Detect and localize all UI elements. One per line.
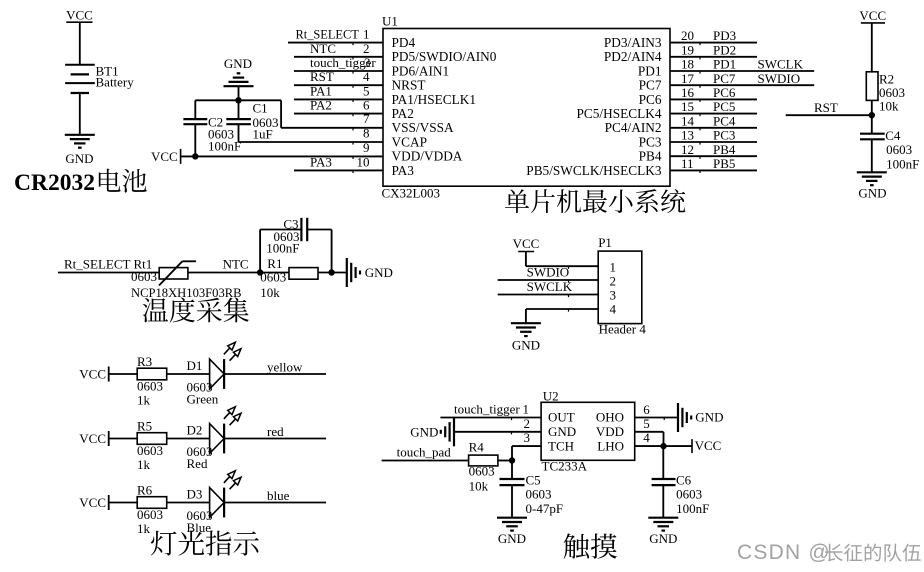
svg-text:5: 5: [363, 83, 370, 98]
svg-text:PD3/AIN3: PD3/AIN3: [604, 35, 662, 50]
wire VCC to R5: [109, 438, 138, 440]
svg-text:PA1: PA1: [310, 83, 332, 98]
svg-text:11: 11: [681, 156, 694, 171]
svg-text:GND: GND: [65, 151, 93, 166]
wire U1 pin 18 net PD1: [670, 70, 814, 72]
svg-text:C1: C1: [253, 101, 268, 116]
ground (C5): [497, 517, 527, 519]
caption MCU minimal system: [505, 189, 685, 213]
svg-text:blue: blue: [267, 488, 290, 503]
svg-text:6: 6: [363, 98, 370, 113]
ground (battery): [65, 134, 95, 136]
svg-text:VDD: VDD: [596, 424, 624, 439]
resistor R1: [289, 268, 318, 280]
svg-text:0-47pF: 0-47pF: [526, 501, 564, 516]
svg-text:SWDIO: SWDIO: [527, 265, 570, 280]
resistor R3: [137, 368, 167, 380]
wire U1 pin 3 net touch_tigger: [294, 70, 383, 72]
svg-text:R3: R3: [137, 354, 152, 369]
svg-text:PD3: PD3: [713, 28, 736, 43]
svg-text:PA2: PA2: [310, 98, 332, 113]
wire VCC to R6: [109, 502, 138, 504]
wire battery to GND: [79, 93, 81, 135]
svg-text:GND: GND: [365, 265, 393, 280]
svg-text:15: 15: [681, 99, 694, 114]
ground (C6): [648, 517, 678, 519]
svg-text:CX32L003: CX32L003: [382, 185, 441, 200]
svg-text:SWDIO: SWDIO: [758, 71, 801, 86]
svg-text:3: 3: [610, 288, 617, 303]
junction (C1 top): [235, 97, 241, 103]
capacitor C6: [662, 446, 664, 479]
svg-text:VCAP: VCAP: [392, 134, 427, 149]
svg-text:Battery: Battery: [96, 75, 135, 90]
svg-text:PC3: PC3: [713, 128, 735, 143]
wire header pin 1: [526, 265, 598, 267]
wire C1 to U1 VCAP pin8: [239, 141, 384, 143]
LED D1: [210, 359, 225, 389]
wire D3 to net blue: [224, 502, 326, 504]
svg-text:0603: 0603: [260, 269, 286, 284]
svg-text:Header 4: Header 4: [599, 321, 647, 336]
svg-text:RST: RST: [814, 100, 838, 115]
svg-text:GND: GND: [410, 424, 438, 439]
svg-text:PC7: PC7: [713, 71, 736, 86]
wire Rt_SELECT to thermistor: [58, 272, 159, 274]
svg-text:GND: GND: [498, 531, 526, 546]
svg-text:D1: D1: [187, 358, 203, 373]
svg-text:PC5: PC5: [713, 99, 735, 114]
svg-text:9: 9: [363, 140, 370, 155]
svg-text:RST: RST: [310, 69, 334, 84]
wire VCC to R3: [109, 373, 138, 375]
svg-text:1: 1: [610, 260, 617, 275]
wire U2 pin 4 LHO to VCC: [635, 445, 664, 447]
svg-text:PD1: PD1: [638, 63, 662, 78]
svg-text:NTC: NTC: [310, 41, 336, 56]
svg-text:10: 10: [357, 154, 370, 169]
wire R4 to junction: [498, 460, 512, 462]
wire U1 pin 4 net RST: [294, 84, 383, 86]
svg-text:0603: 0603: [137, 507, 163, 522]
wire header pin 2 SWDIO: [498, 279, 599, 281]
svg-text:1k: 1k: [137, 457, 151, 472]
battery BT1: [65, 64, 95, 66]
junction (RST node): [869, 112, 875, 118]
svg-text:D3: D3: [187, 487, 203, 502]
svg-text:C5: C5: [526, 472, 541, 487]
power VCC (U2): [691, 439, 693, 453]
svg-text:2: 2: [524, 416, 531, 431]
svg-text:3: 3: [364, 55, 371, 70]
wire U2 pin 5 VDD: [635, 431, 664, 433]
svg-text:GND: GND: [649, 531, 677, 546]
svg-text:OHO: OHO: [596, 410, 624, 425]
svg-text:19: 19: [681, 42, 694, 57]
svg-text:TC233A: TC233A: [542, 459, 588, 474]
svg-text:0603: 0603: [131, 269, 157, 284]
resistor R2: [866, 72, 878, 101]
wire U1 pin 14 net PC4: [670, 127, 757, 129]
caption touch: [564, 533, 617, 558]
wire U1 pin 12 net PB4: [670, 155, 757, 157]
svg-text:4: 4: [643, 430, 650, 445]
svg-text:PB5/SWCLK/HSECLK3: PB5/SWCLK/HSECLK3: [526, 163, 662, 178]
wire GND rail over C1 C2: [195, 99, 281, 101]
svg-text:GND: GND: [695, 409, 723, 424]
wire R2 to C4: [871, 100, 873, 133]
op-amp U1 box (MCU CX32L003): [383, 29, 670, 187]
svg-text:GND: GND: [548, 424, 576, 439]
svg-text:0603: 0603: [137, 379, 163, 394]
wire RST net: [786, 114, 872, 116]
svg-text:PA1/HSECLK1: PA1/HSECLK1: [392, 92, 476, 107]
resistor R6: [137, 497, 167, 509]
svg-text:Red: Red: [187, 456, 208, 471]
wire D1 to net yellow: [224, 373, 326, 375]
wire U1 pin 5 net PA1: [294, 98, 383, 100]
svg-text:100nF: 100nF: [208, 139, 241, 154]
svg-text:NRST: NRST: [392, 78, 426, 93]
svg-text:NTC: NTC: [223, 257, 249, 272]
wire touch_pad to R4: [382, 460, 469, 462]
svg-text:Green: Green: [187, 392, 219, 407]
wire GND rail down to U1 VSS pin7: [280, 100, 282, 128]
wire U1 pin 16 net PC6: [670, 98, 757, 100]
svg-text:PC6: PC6: [639, 92, 662, 107]
svg-text:VDD/VDDA: VDD/VDDA: [392, 149, 463, 164]
LED D2: [210, 424, 225, 454]
svg-text:0603: 0603: [469, 464, 495, 479]
svg-text:18: 18: [681, 57, 694, 72]
svg-text:PB5: PB5: [713, 156, 735, 171]
svg-text:PD2: PD2: [713, 42, 736, 57]
wire U1 pin 1 net Rt_SELECT: [288, 42, 383, 44]
svg-text:4: 4: [363, 69, 370, 84]
wire U2 pin 1 net touch_tigger: [440, 417, 541, 419]
svg-text:C6: C6: [676, 472, 692, 487]
svg-text:PD6/AIN1: PD6/AIN1: [392, 63, 450, 78]
svg-text:12: 12: [681, 142, 694, 157]
svg-text:SWCLK: SWCLK: [758, 57, 804, 72]
svg-text:PB4: PB4: [713, 142, 736, 157]
svg-text:4: 4: [610, 302, 617, 317]
wire U2 pin 2 to GND: [454, 431, 541, 433]
svg-text:VCC: VCC: [859, 8, 886, 23]
capacitor C5: [511, 461, 513, 480]
svg-text:PD2/AIN4: PD2/AIN4: [604, 49, 662, 64]
svg-text:OUT: OUT: [548, 410, 575, 425]
svg-text:10k: 10k: [469, 479, 489, 494]
svg-text:17: 17: [681, 71, 695, 86]
wire U1 pin 2 net NTC: [294, 56, 383, 58]
svg-text:VCC: VCC: [66, 7, 93, 22]
svg-text:VCC: VCC: [513, 236, 540, 251]
wire U1 pin 19 net PD2: [670, 56, 757, 58]
svg-text:20: 20: [681, 28, 694, 43]
svg-text:6: 6: [643, 402, 650, 417]
wire R3 to D1: [167, 373, 210, 375]
thermistor Rt1: [159, 268, 188, 279]
svg-text:16: 16: [681, 85, 695, 100]
svg-text:GND: GND: [512, 337, 540, 352]
capacitor C2: [194, 100, 196, 119]
svg-text:1k: 1k: [137, 521, 151, 536]
svg-text:PB4: PB4: [639, 149, 662, 164]
wire R5 to D2: [167, 438, 210, 440]
svg-text:NCP18XH103F03RB: NCP18XH103F03RB: [131, 286, 242, 300]
svg-text:0603: 0603: [886, 142, 912, 157]
svg-text:yellow: yellow: [267, 360, 303, 375]
svg-text:LHO: LHO: [597, 438, 624, 453]
svg-text:13: 13: [681, 128, 694, 143]
svg-text:0603: 0603: [526, 487, 552, 502]
ground (U2 pin 6): [677, 403, 679, 432]
svg-text:touch_pad: touch_pad: [397, 445, 452, 460]
svg-text:100nF: 100nF: [266, 241, 299, 256]
svg-text:CSDN @: CSDN @: [737, 541, 831, 564]
wire header pin 4 to GND: [526, 308, 598, 310]
svg-text:VCC: VCC: [79, 431, 106, 446]
wire U1 pin 10 net PA3: [294, 169, 383, 171]
svg-text:10k: 10k: [260, 285, 280, 300]
svg-text:PD4: PD4: [392, 35, 416, 50]
svg-text:VCC: VCC: [79, 495, 106, 510]
svg-text:PA3: PA3: [310, 154, 332, 169]
svg-text:PD1: PD1: [713, 57, 736, 72]
wire R6 to D3: [167, 502, 210, 504]
wire U1 pin 6 net PA2: [294, 113, 383, 115]
svg-text:PC3: PC3: [639, 134, 662, 149]
svg-text:touch_tigger: touch_tigger: [454, 402, 520, 417]
svg-text:PC4/AIN2: PC4/AIN2: [605, 120, 662, 135]
ground (U2 pin 2): [453, 417, 455, 446]
caption temperature acquisition: [143, 297, 249, 322]
junction (VDD node): [660, 443, 666, 449]
svg-text:2: 2: [363, 41, 370, 56]
svg-text:PA2: PA2: [392, 106, 414, 121]
wire U1 pin 11 net PB5: [670, 169, 757, 171]
resistor R4: [469, 455, 498, 466]
wire R1 to GND: [318, 272, 347, 274]
svg-text:P1: P1: [598, 235, 612, 250]
svg-text:0603: 0603: [676, 487, 702, 502]
svg-text:SWCLK: SWCLK: [527, 279, 573, 294]
ground (header): [511, 322, 541, 324]
wire D2 to net red: [224, 438, 326, 440]
svg-text:PC4: PC4: [713, 113, 736, 128]
resistor R5: [137, 433, 167, 445]
op-amp U2 box (touch chip TC233A): [541, 402, 635, 460]
svg-text:PD5/SWDIO/AIN0: PD5/SWDIO/AIN0: [392, 49, 497, 64]
svg-text:3: 3: [524, 430, 531, 445]
svg-text:0603: 0603: [137, 443, 163, 458]
wire U1 pin 13 net PC3: [670, 141, 757, 143]
svg-text:GND: GND: [224, 56, 252, 71]
svg-text:Rt_SELECT: Rt_SELECT: [296, 28, 360, 42]
ground (temperature): [346, 258, 348, 287]
wire U1 pin 17 net PC7: [670, 84, 814, 86]
svg-text:TCH: TCH: [548, 438, 574, 453]
ground (C4): [857, 171, 887, 173]
svg-text:CR2032: CR2032: [14, 170, 95, 196]
svg-text:5: 5: [643, 416, 650, 431]
svg-text:1: 1: [523, 402, 530, 417]
svg-text:R4: R4: [469, 439, 485, 454]
junction (TCH node): [509, 457, 515, 463]
svg-text:VCC: VCC: [695, 438, 722, 453]
svg-text:R5: R5: [137, 419, 152, 434]
svg-text:2: 2: [610, 274, 617, 289]
caption light indication: [151, 530, 259, 555]
wire U2 pin 6 to GND: [635, 417, 678, 419]
svg-text:PC7: PC7: [639, 78, 662, 93]
svg-text:PC6: PC6: [713, 85, 736, 100]
svg-text:C4: C4: [885, 128, 901, 143]
svg-text:GND: GND: [858, 186, 886, 201]
capacitor C1: [238, 100, 240, 119]
svg-text:U2: U2: [543, 389, 559, 404]
wire thermistor to R1: [188, 272, 289, 274]
wire header pin 3 SWCLK: [498, 294, 599, 296]
svg-text:R6: R6: [137, 483, 153, 498]
capacitor C3: [259, 230, 261, 273]
svg-text:10k: 10k: [879, 99, 899, 114]
svg-text:VCC: VCC: [79, 367, 106, 382]
wire C4 to GND: [871, 139, 873, 172]
svg-text:100nF: 100nF: [676, 501, 709, 516]
capacitor C4: [860, 133, 885, 135]
junction (NTC node): [257, 269, 263, 275]
svg-text:VSS/VSSA: VSS/VSSA: [392, 120, 454, 135]
svg-text:1uF: 1uF: [253, 127, 273, 142]
wire VCC to U1 VDD pin9: [181, 155, 383, 157]
junction (C2 bottom on VCC): [192, 153, 198, 159]
svg-text:1: 1: [363, 27, 370, 42]
connector P1 Header 4: [598, 251, 642, 324]
wire U2 pin 3 TCH: [512, 445, 541, 447]
svg-text:D2: D2: [187, 423, 203, 438]
svg-text:U1: U1: [382, 14, 398, 29]
svg-text:14: 14: [681, 113, 695, 128]
svg-text:red: red: [267, 424, 284, 439]
svg-text:1k: 1k: [137, 393, 151, 408]
svg-text:100nF: 100nF: [886, 157, 919, 172]
wire VCC to battery: [79, 22, 81, 65]
svg-text:PC5/HSECLK4: PC5/HSECLK4: [577, 106, 662, 121]
wire U1 pin 15 net PC5: [670, 113, 757, 115]
LED D3: [210, 488, 225, 518]
wire VCC to R2: [871, 23, 873, 72]
svg-text:VCC: VCC: [151, 149, 178, 164]
wire U1 pin 20 net PD3: [670, 42, 757, 44]
svg-text:PA3: PA3: [392, 163, 415, 178]
junction (R1 right): [328, 269, 334, 275]
